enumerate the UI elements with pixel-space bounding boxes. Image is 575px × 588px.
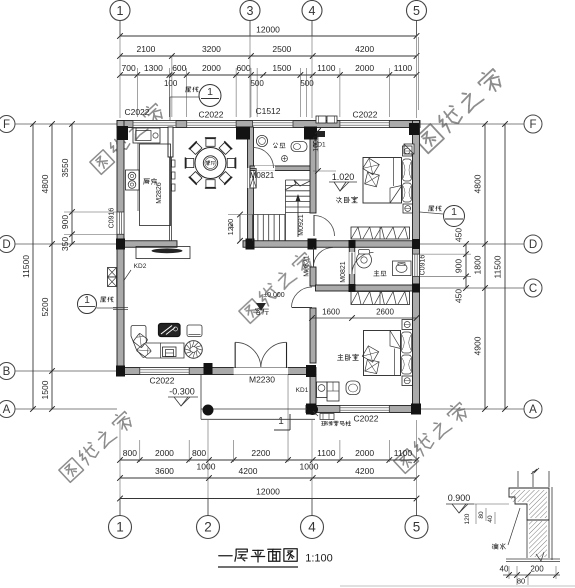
svg-text:C0916: C0916 <box>109 208 116 229</box>
svg-text:M2230: M2230 <box>249 375 275 385</box>
svg-text:2500: 2500 <box>272 44 291 54</box>
svg-text:4: 4 <box>309 4 316 18</box>
svg-text:M0921: M0921 <box>298 214 305 236</box>
svg-text:80: 80 <box>478 511 485 519</box>
svg-text:5: 5 <box>413 4 420 18</box>
svg-text:2000: 2000 <box>355 63 374 73</box>
svg-text:1600: 1600 <box>322 308 340 317</box>
svg-text:0.900: 0.900 <box>448 493 471 503</box>
svg-text:1100: 1100 <box>394 63 413 73</box>
svg-text:A: A <box>3 404 11 416</box>
svg-text:1100: 1100 <box>394 448 413 458</box>
svg-text:900: 900 <box>60 215 70 229</box>
svg-text:40: 40 <box>487 515 494 523</box>
svg-text:-0.300: -0.300 <box>169 387 195 397</box>
svg-text:2000: 2000 <box>155 448 174 458</box>
svg-text:C2022: C2022 <box>353 414 378 424</box>
svg-text:D: D <box>529 239 537 251</box>
svg-text:M2826: M2826 <box>156 182 163 204</box>
svg-text:100: 100 <box>164 79 178 88</box>
svg-text:1: 1 <box>451 206 457 218</box>
svg-text:2000: 2000 <box>355 448 374 458</box>
svg-text:F: F <box>529 119 536 131</box>
svg-text:C2022: C2022 <box>198 110 223 120</box>
svg-text:3600: 3600 <box>155 466 174 476</box>
svg-text:D: D <box>2 239 10 251</box>
svg-text:12000: 12000 <box>256 487 280 497</box>
svg-text:C: C <box>529 283 537 295</box>
svg-text:KD1: KD1 <box>296 387 309 394</box>
svg-text:5200: 5200 <box>40 297 50 316</box>
svg-text:1300: 1300 <box>144 63 163 73</box>
svg-text:1000: 1000 <box>197 462 216 472</box>
svg-text:120: 120 <box>464 513 471 524</box>
svg-text:2000: 2000 <box>202 63 221 73</box>
svg-text:4200: 4200 <box>355 44 374 54</box>
svg-text:800: 800 <box>123 448 137 458</box>
svg-text:1800: 1800 <box>473 255 483 274</box>
svg-text:C2022: C2022 <box>149 376 174 386</box>
svg-text:1: 1 <box>116 520 124 535</box>
svg-text:900: 900 <box>454 259 464 273</box>
svg-text:2: 2 <box>204 520 212 535</box>
svg-text:F: F <box>3 119 10 131</box>
svg-text:B: B <box>3 366 11 378</box>
svg-text:11500: 11500 <box>493 255 503 278</box>
svg-text:M0821: M0821 <box>340 261 347 283</box>
svg-text:M0821: M0821 <box>304 255 311 277</box>
svg-text:4200: 4200 <box>239 466 258 476</box>
svg-text:2100: 2100 <box>136 44 155 54</box>
svg-text:2200: 2200 <box>251 448 270 458</box>
svg-text:4: 4 <box>308 520 316 535</box>
svg-text:1: 1 <box>207 86 213 98</box>
svg-text:KD1: KD1 <box>313 142 326 149</box>
svg-text:2600: 2600 <box>376 308 394 317</box>
svg-text:5: 5 <box>413 520 421 535</box>
svg-text:200: 200 <box>530 565 544 574</box>
svg-text:C1512: C1512 <box>255 106 280 116</box>
svg-text:12000: 12000 <box>256 25 280 35</box>
svg-text:A: A <box>529 404 537 416</box>
svg-text:C2022: C2022 <box>124 107 149 117</box>
svg-text:KD2: KD2 <box>134 263 147 270</box>
svg-text:±0.000: ±0.000 <box>263 292 284 299</box>
svg-text:1100: 1100 <box>317 63 336 73</box>
svg-text:4900: 4900 <box>473 336 483 355</box>
svg-text:3550: 3550 <box>60 158 70 177</box>
svg-text:80: 80 <box>517 577 525 586</box>
svg-text:11500: 11500 <box>21 255 31 278</box>
svg-text:450: 450 <box>454 289 464 303</box>
svg-text:1:100: 1:100 <box>305 553 333 565</box>
svg-text:1: 1 <box>117 4 124 18</box>
svg-text:4200: 4200 <box>355 466 374 476</box>
svg-text:1000: 1000 <box>300 462 319 472</box>
svg-text:3200: 3200 <box>202 44 221 54</box>
svg-text:1: 1 <box>278 416 284 427</box>
svg-text:1.020: 1.020 <box>332 172 355 182</box>
svg-text:350: 350 <box>60 237 70 251</box>
svg-text:700: 700 <box>122 63 136 73</box>
svg-text:450: 450 <box>454 228 464 242</box>
svg-text:1220: 1220 <box>226 219 235 236</box>
svg-text:600: 600 <box>172 63 186 73</box>
svg-text:40: 40 <box>500 565 509 574</box>
svg-text:4800: 4800 <box>40 174 50 193</box>
svg-text:800: 800 <box>192 448 206 458</box>
svg-text:1100: 1100 <box>317 448 336 458</box>
svg-text:M0821: M0821 <box>250 171 275 180</box>
svg-text:600: 600 <box>236 63 250 73</box>
svg-text:1: 1 <box>84 295 90 306</box>
svg-text:4800: 4800 <box>473 174 483 193</box>
svg-text:C2022: C2022 <box>352 110 377 120</box>
svg-text:3: 3 <box>247 4 254 18</box>
svg-text:1500: 1500 <box>272 63 291 73</box>
svg-text:1500: 1500 <box>40 380 50 399</box>
svg-text:C0916: C0916 <box>420 255 427 276</box>
